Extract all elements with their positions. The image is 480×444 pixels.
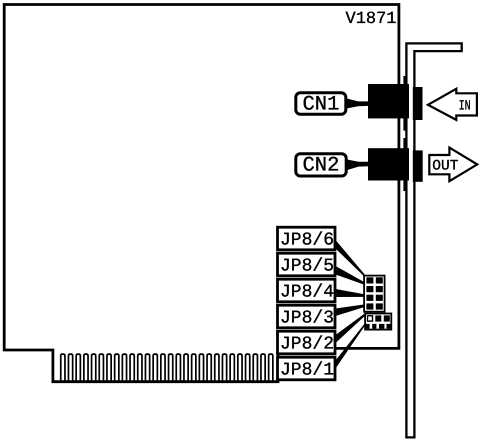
svg-text:CN2: CN2 <box>303 155 340 178</box>
svg-text:V1871: V1871 <box>346 10 397 29</box>
svg-text:JP8/2: JP8/2 <box>280 334 334 354</box>
svg-text:OUT: OUT <box>432 159 458 175</box>
svg-text:JP8/6: JP8/6 <box>280 230 334 250</box>
svg-text:IN: IN <box>459 99 471 115</box>
svg-text:JP8/3: JP8/3 <box>280 308 334 328</box>
svg-text:JP8/4: JP8/4 <box>280 282 334 302</box>
svg-text:JP8/1: JP8/1 <box>280 360 334 380</box>
svg-text:CN1: CN1 <box>303 94 340 117</box>
svg-text:JP8/5: JP8/5 <box>280 256 334 276</box>
